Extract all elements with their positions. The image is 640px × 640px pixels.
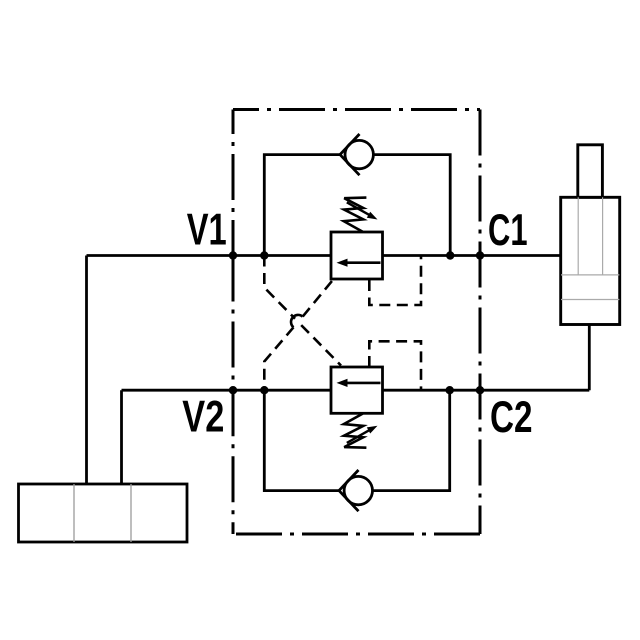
cylinder rod (external)	[578, 145, 603, 198]
svg-text:V2: V2	[182, 393, 224, 442]
pilot drain: CB2 to line C2 (dashed bracket)	[369, 341, 421, 390]
cylinder actuator body	[561, 197, 620, 324]
check valve CV1	[340, 134, 373, 175]
counterbalance valve CB1 body	[331, 232, 383, 279]
wire: port line V2-C2 (right of valve CB2)	[383, 389, 590, 392]
svg-text:C2: C2	[490, 393, 533, 442]
check valve CV2	[339, 470, 372, 511]
CB1 adjustment arrow	[347, 202, 378, 219]
node: C1 port at boundary	[476, 251, 484, 259]
wire: bottom bypass loop (around check valve CV2)	[264, 390, 339, 490]
pilot line: V2 node to CB1 (dashed, with crossover hop)	[264, 281, 332, 390]
node: bottom loop left junction	[260, 386, 268, 394]
wire: V1 branch down to manifold block	[85, 256, 88, 485]
node: top loop left junction	[260, 251, 268, 259]
CB2 flow arrow	[337, 379, 381, 387]
CB2 adjustment arrow	[347, 426, 378, 443]
wire: port line V2 to C2 (left of valve CB2)	[122, 389, 332, 392]
svg-text:V1: V1	[187, 206, 227, 255]
pilot crossover hop arc	[291, 315, 303, 327]
wire: C2 riser to cylinder bottom	[588, 325, 591, 391]
svg-text:C1: C1	[488, 206, 528, 255]
pilot drain: CB1 to line C1 (dashed bracket)	[369, 256, 421, 306]
wire: V2 branch down to manifold block	[120, 390, 123, 484]
CB2 spring (adjustable)	[344, 414, 367, 448]
cylinder rod internal lines	[578, 197, 602, 275]
node: V2 port at boundary	[229, 386, 237, 394]
manifold block	[19, 484, 188, 542]
valve body boundary (dash-dot enclosure)	[233, 110, 480, 535]
counterbalance valve CB2 body	[331, 367, 383, 413]
wire: port line V1-C1 (right of valve CB1) to cylinder	[383, 254, 561, 257]
cylinder piston lines	[561, 275, 619, 300]
wire: port line V1 to C1 (left of valve CB1)	[87, 254, 332, 257]
wire: top bypass loop (around check valve CV1)	[264, 155, 340, 256]
pilot line: V1 node to CB2 (dashed, passes under hop)	[264, 256, 341, 366]
node: C2 port at boundary	[476, 386, 484, 394]
manifold block divider lines	[74, 484, 131, 542]
node: bottom loop right junction	[446, 386, 454, 394]
CB1 spring (adjustable)	[344, 198, 367, 232]
node: top loop right junction	[446, 251, 454, 259]
CB1 flow arrow	[337, 259, 381, 267]
node: V1 port at boundary	[229, 251, 237, 259]
